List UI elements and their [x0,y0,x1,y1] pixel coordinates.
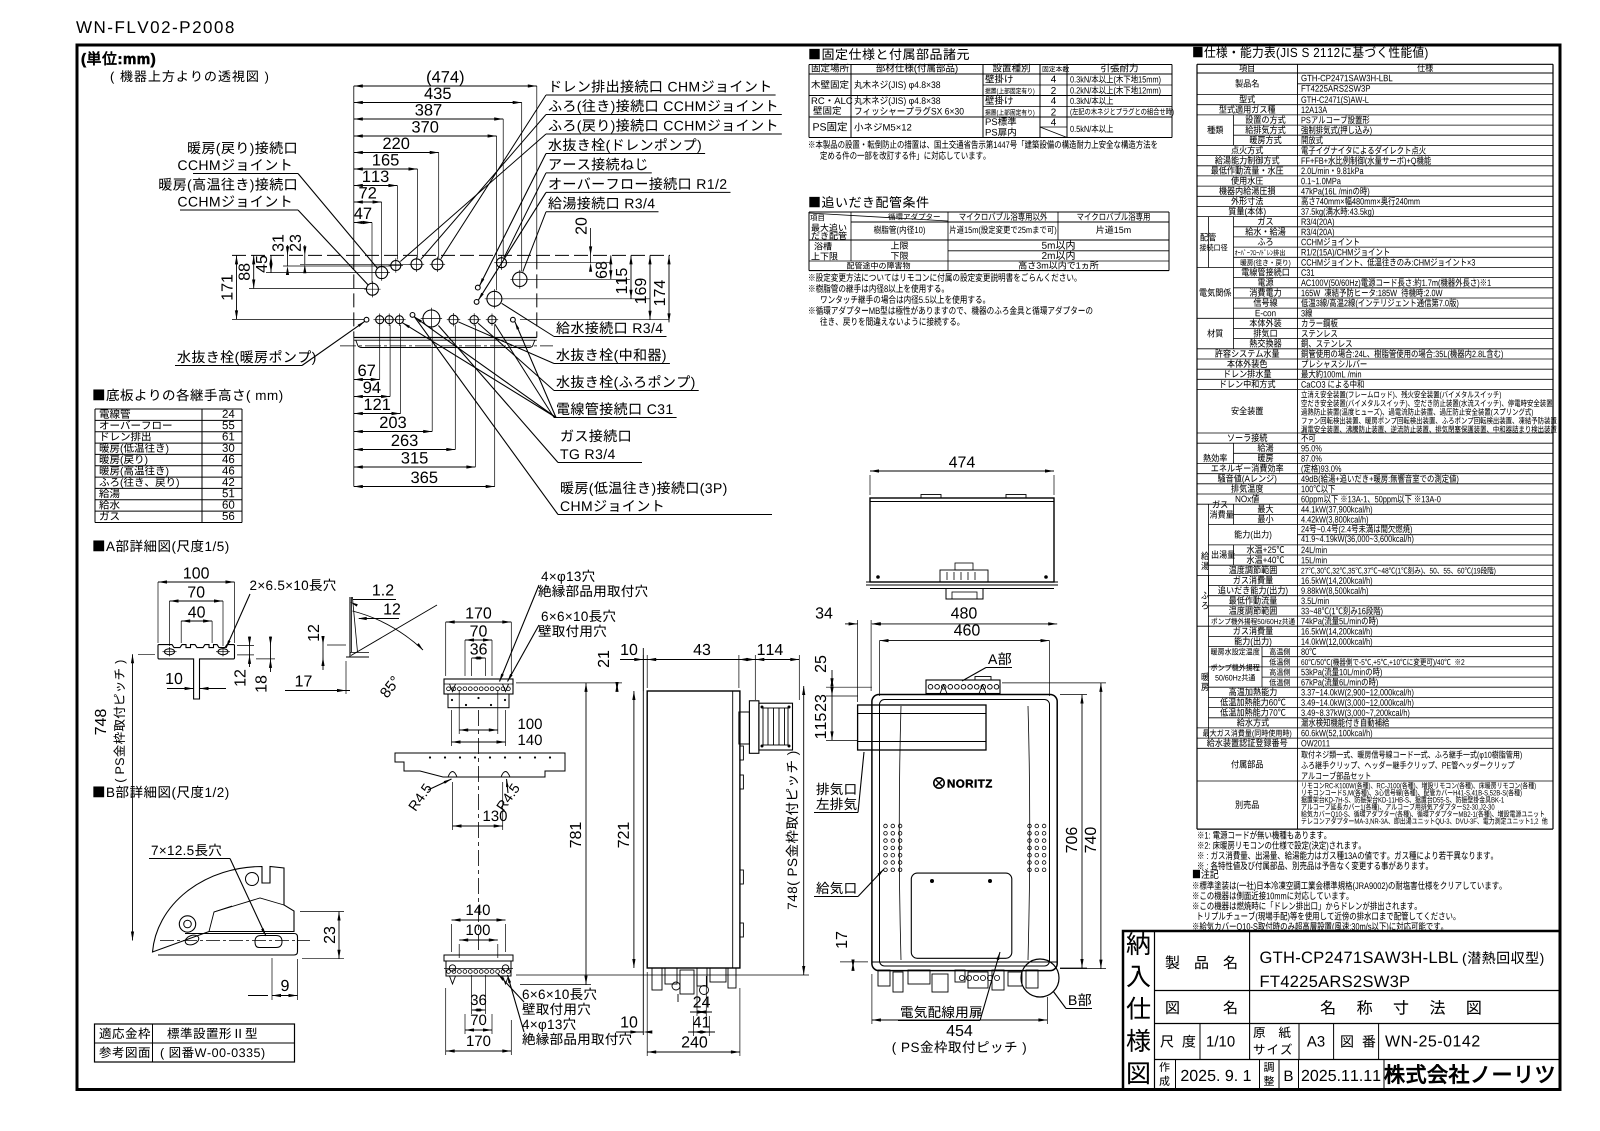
dimension 315 bottom [354,466,476,468]
detail B slots 7x12.5 [184,933,200,946]
hole: drain plug heating pump [364,317,369,322]
NORITZ logo [934,778,944,788]
dimension 68 right [610,255,612,279]
detail B hook bracket outline [153,867,295,953]
detail B center line [160,940,310,942]
spec table special cells [1298,83,1554,85]
dimension 18 detail A [270,637,272,673]
dimension 100 below top bracket [459,729,498,731]
plan view inner details [940,570,988,582]
dimension 23 left [304,245,306,264]
dimension 23 detail B [338,912,340,959]
top view unit left edge (dashed) [353,255,355,337]
spec notes [1198,831,1326,840]
label: A part [988,652,1011,665]
hole: gas port TG R3/4 [423,310,440,327]
label: 4x phi13 hole (top) [541,570,594,584]
wiring door panel [911,873,1012,958]
center dash line between brackets [478,710,480,952]
dimension 171 left [236,255,238,319]
front view bottom pipes [872,961,1057,963]
dimension 9 detail B [272,995,298,997]
table: applicable frame [95,1024,295,1062]
dimension 100 above bottom bracket [459,939,498,941]
hole: heating low-temp port 2 [385,316,393,324]
hole: drain discharge port [432,259,443,270]
dimension 10 bottom left side view [616,1031,643,1033]
hole: bath return port [391,261,401,271]
label: gas port TG R3/4 [561,429,630,442]
hole: overflow port [474,300,479,305]
detail B small circle top [246,873,259,886]
vent grid right [1028,824,1032,828]
dimension 365 bottom [354,486,495,488]
dimension 34 / 480 line [845,623,858,625]
dimension 435 top [354,102,522,104]
fixing row: wooden wall [811,80,848,89]
dimension 1.2 detail A [353,599,397,601]
dimension 21 [616,683,618,691]
fixing table header [812,64,849,73]
dimension 130 rail notches [453,825,503,827]
spec accessories cell [1301,750,1522,759]
detail A bracket outline [158,645,235,699]
plan view body [870,498,1054,582]
dimension 36 top bracket [472,657,486,659]
notes section [1193,869,1219,879]
B part circle [1021,959,1059,997]
scale row [1199,1024,1201,1060]
section title: joint heights from bottom plate [93,389,282,403]
dimension 203 bottom [354,431,432,433]
top view bottom tray [356,340,535,347]
dimension 169 right [649,255,651,319]
hole: earth screw [497,258,507,268]
fixing row: PS [813,122,847,132]
title block vertical: nonyu shiyozu [1154,931,1156,1090]
dimension 706 [1081,695,1083,969]
dimension 474 plan view [870,470,1054,472]
dimension 174 right [668,255,670,322]
unit note [82,51,155,67]
label: 電線管接続口 C31 [557,402,672,415]
dimension 67 bottom [354,379,380,381]
dim 748 PS bracket pitch (A-B) [132,654,134,940]
bottom dim extension baseline left [353,338,355,487]
top view unit right edge [536,255,538,337]
label: 水抜き栓(ふろポンプ) [556,375,694,390]
dimension (474) top [354,85,537,87]
hole: drain plug bath pump [470,316,478,324]
drawing sheet number [76,21,234,33]
dimension 263 bottom [354,449,456,451]
spec optional items cell [1302,782,1535,790]
front view outer case [872,695,1057,971]
dimension 165 top [354,168,418,170]
dimension 100 detail A [158,581,235,583]
dimension 88 left [253,255,255,288]
top bracket lower plate [448,694,509,708]
section title: fixing specs [809,48,969,60]
front view left dims 25/23/115 [826,686,872,688]
spec safety row text [1301,391,1501,400]
detail A 85 deg arc [353,611,424,650]
dimension 740 [1100,683,1102,969]
section title: detail B (1/2) [93,786,228,800]
dimension 17 front view [852,962,854,969]
title block rows [1155,990,1561,992]
label: ふろ(往き)接続口 CCHMジョイント [549,99,777,114]
label: 7x12.5 slot [152,844,222,856]
label: heating return port CCHM [188,141,296,156]
dimension 94 bottom [354,396,390,398]
side view wall line [642,648,644,1035]
dimension 12 angle [359,618,399,620]
dimension 170 bottom bracket [446,1050,512,1052]
table: reheating grid [809,211,1169,213]
label: B part [1069,993,1091,1006]
label: air intake [816,882,855,895]
top dim extension baseline left [353,86,355,255]
side view right edge latches [740,746,744,760]
section title: detail A (1/5) [93,540,228,554]
label: R4.5 left [408,783,432,811]
plan view bottom flange [866,581,1058,583]
hole: heating low-temp port 1 [376,316,384,324]
dimension 10 detail A stem [167,688,194,690]
dimension 72 top [354,201,382,203]
dimension 113 top [354,185,398,187]
hole: small port right [511,317,516,322]
date row [1175,1060,1177,1090]
label: 水抜き栓(ドレンポンプ) [548,138,700,153]
rail notch right R4.5 [501,772,510,778]
label: 6x6x10 slot (bottom) [523,988,597,1000]
spec capacity 2-line cell [1298,534,1554,536]
section title: reheating pipe conditions [809,196,928,208]
dimension 47 top [354,222,372,224]
side view bottom bracket [444,955,513,961]
detail B hole [179,916,195,932]
side view hanger rail [395,753,565,777]
dimension 454 PS pitch bottom [872,1019,1048,1021]
label: heating low-temp port (3P) CHM joint [561,481,726,496]
plan view center bump [946,589,983,600]
dimension 121 bottom [354,413,401,415]
dimension 140 above bottom bracket [452,919,506,921]
dimension 781 [585,683,587,985]
hole: drain plug (drain pump) [475,285,480,290]
hole: conduit port C31 [488,316,496,324]
label: 給水接続口 R3/4 [556,321,662,334]
rail notch left R4.5 [448,772,457,778]
dim 748 front view left [833,687,835,976]
reheating rows: bath limits [814,242,831,250]
table: fixing specs grid [809,64,1172,66]
leaders: conduit C31 fan-out [415,317,557,418]
side view bottom pipes [652,968,662,990]
label: exhaust port left [816,783,855,796]
drawing name row [1166,1001,1178,1014]
label: ふろ(戻り)接続口 CCHMジョイント [549,119,777,134]
dimension 12 vertical angle [322,640,324,670]
front view top mounting bracket (A part) [926,680,1000,694]
detail A angle piece [349,597,351,657]
dimensions 10 43 114 top of side view [620,659,799,661]
side view body [647,691,740,968]
side view top bracket (front view of wall bracket) [444,679,513,694]
label: ドレン排出接続口 CHMジョイント [552,80,770,93]
hole: heating return port [376,267,388,279]
dimension 36 bottom bracket [472,1009,486,1011]
table: joint heights [95,408,242,410]
front view panel seams [899,706,901,960]
dimension 220 top [354,152,439,154]
label: R4.5 right [496,783,520,811]
dimension 140 below top bracket [452,741,506,743]
hole: heating hi-temp supply port [366,283,378,295]
top view center dash-dot line [340,345,553,347]
title block outer [1123,931,1560,1090]
dimension 45 left [270,255,272,272]
dimension 70 top bracket [465,639,492,641]
label: 6x6x10 slot (top) [542,610,616,622]
fixing table note [809,140,1157,149]
table: spec grid [1197,63,1553,65]
top view unit rear dashed line [232,254,670,256]
label: 水抜き栓(中和器) [556,348,665,363]
dimension 31 left [287,245,289,266]
hole: hot water port R3/4 [513,272,527,286]
hole: drain plug neutralizer [449,315,458,324]
reheating row: max pipe [811,223,846,231]
dim 748 PS pitch between views [803,686,805,975]
dimension 370 top [354,135,497,137]
dimension 460 [880,640,1050,642]
plan view top tabs [921,495,941,499]
dimension 70 bottom bracket [465,1029,492,1031]
top view unit front edge [354,337,537,339]
dimension 721 [633,691,635,968]
dimension 17 angle [285,690,350,692]
dimensions 24 41 240 bottom of side view [690,1011,712,1013]
label: drain plug heating pump [177,350,315,365]
company logo NORITZ [1385,1064,1554,1083]
label: heating hi-temp supply port CCHM [159,178,296,193]
hole: water supply port R3/4 [487,291,502,306]
top view caption [111,70,268,84]
fixing row: RC ALC wall [812,97,853,104]
dimension 387 top [354,118,503,120]
label: アース接続ねじ [550,158,647,171]
label: オーバーフロー接続口 R1/2 [549,177,726,190]
dimension 115 right [630,255,632,298]
top bracket hook tabs [450,684,456,692]
label: 4x phi13 (bottom) [522,1018,575,1032]
section title: spec table [1193,46,1427,60]
label: 2x6.5x10 slot [250,579,336,591]
front view inner panel [880,700,1050,967]
dimension 12 detail A [249,637,251,668]
dimension 20 right [590,228,592,263]
side view exhaust adapter [739,712,750,744]
hole: small port mid [410,313,415,318]
label: 給湯接続口 R3/4 [548,197,654,210]
dimension 40 detail A [181,620,212,622]
exhaust duct (left exhaust) [858,705,986,750]
dimension 170 top bracket [446,621,512,623]
hole: bath supply port [411,259,422,270]
hole: heating low-temp port 3 [395,316,403,324]
detail B base plate [158,934,298,956]
reheating notes [809,273,1077,282]
detail A slot holes 2x6.5x10 [165,649,175,655]
reheating header diagonal [809,213,948,221]
label: electrical wiring door [901,1006,982,1019]
product name row [1249,931,1251,1060]
vent grid left [884,824,888,828]
dimension 70 detail A [170,600,224,602]
